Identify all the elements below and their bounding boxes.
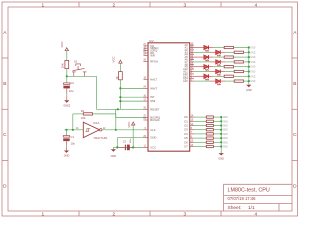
- Z80 CPU IC2 body: [148, 43, 190, 151]
- wire D6 to R18: [194, 141, 206, 143]
- pin 7 D4: [190, 133, 194, 135]
- pin 18 HALT: [144, 78, 149, 80]
- frame row ticks right: [292, 57, 298, 59]
- pin 21 RD: [144, 52, 149, 54]
- pin 15 D1: [190, 120, 194, 122]
- junction reset line pullup: [117, 108, 119, 110]
- svg-text:NMI: NMI: [150, 99, 155, 103]
- pin 11 VCC: [144, 146, 149, 148]
- svg-text:VCC: VCC: [150, 145, 156, 149]
- svg-text:B: B: [3, 81, 6, 87]
- svg-text:WR: WR: [150, 53, 155, 57]
- svg-text:3: 3: [183, 2, 186, 8]
- svg-text:3: 3: [183, 212, 186, 218]
- pin 25 BUSRQ: [144, 117, 149, 119]
- svg-text:A: A: [3, 30, 7, 36]
- svg-text:VCC: VCC: [112, 55, 116, 62]
- pin 19 MREQ: [144, 47, 149, 49]
- wire R17 to gnd rail 2: [213, 137, 221, 139]
- wire A11 to LED6: [194, 71, 210, 73]
- pin 17 NMI: [144, 100, 149, 102]
- wire C1 to GND: [66, 141, 68, 145]
- svg-text:GND: GND: [64, 155, 70, 158]
- svg-text:GND: GND: [223, 126, 228, 128]
- wire LED1 to R4: [209, 47, 213, 49]
- svg-text:C2: C2: [70, 81, 74, 85]
- svg-text:CLK: CLK: [150, 128, 156, 132]
- svg-text:1: 1: [41, 2, 44, 8]
- svg-text:GND: GND: [223, 147, 228, 149]
- pin 6 CLK: [144, 129, 149, 131]
- svg-text:4: 4: [254, 212, 257, 218]
- wire R6 to gnd rail: [234, 56, 249, 58]
- junction node reset RC: [66, 75, 68, 77]
- wire gnd rail vertical lower: [220, 117, 222, 153]
- resistor R13: [206, 120, 213, 122]
- wire feedback top right: [93, 113, 116, 115]
- pin 32 A2: [190, 49, 194, 51]
- wire R15 to gnd rail 2: [213, 129, 221, 131]
- wire LED8 to R11: [221, 80, 225, 82]
- LED LED3: [204, 55, 208, 59]
- junction gnd rail2 row 5: [220, 133, 222, 135]
- frame column ticks bottom: [78, 211, 80, 216]
- svg-text:GND: GND: [250, 72, 255, 74]
- junction INT: [119, 96, 121, 98]
- wire R4 to gnd rail: [234, 47, 249, 49]
- wire R19 to gnd rail 2: [213, 146, 221, 148]
- svg-text:D7: D7: [184, 145, 188, 149]
- svg-text:GND: GND: [250, 76, 255, 78]
- svg-text:100n: 100n: [130, 138, 132, 144]
- wire LED2 to R5: [221, 51, 225, 53]
- junction gnd rail row 5: [248, 66, 250, 68]
- pin 22 WR: [144, 54, 149, 56]
- svg-text:BUSAK: BUSAK: [150, 118, 160, 122]
- wire D3 to R15: [194, 129, 206, 131]
- svg-text:2: 2: [112, 212, 115, 218]
- wire feedback top left: [73, 113, 84, 115]
- junction gnd rail2 row 4: [220, 129, 222, 131]
- power VCC supply P3: [132, 122, 135, 125]
- svg-text:GND: GND: [250, 62, 255, 64]
- wire feedback right vertical: [115, 114, 117, 130]
- junction gnd rail2 row 8: [220, 145, 222, 147]
- svg-text:10K: 10K: [60, 63, 64, 68]
- svg-text:10u: 10u: [69, 89, 74, 93]
- svg-text:GND: GND: [250, 48, 255, 50]
- resistor R6: [224, 56, 233, 58]
- svg-text:GND: GND: [223, 117, 228, 119]
- svg-text:A15: A15: [183, 79, 188, 83]
- pin 4 A14: [190, 78, 194, 80]
- junction NMI: [119, 100, 121, 102]
- wire D0 to R12: [194, 116, 206, 118]
- svg-text:S1: S1: [74, 59, 78, 63]
- LED LED2: [216, 50, 220, 54]
- junction gnd rail2 row 6: [220, 137, 222, 139]
- pin 38 A8: [190, 63, 194, 65]
- svg-text:D2: D2: [184, 124, 188, 128]
- power VCC supply P1: [65, 48, 68, 51]
- LED LED5: [204, 65, 208, 69]
- svg-text:Sheet:: Sheet:: [228, 205, 242, 211]
- junction WAIT: [119, 87, 121, 89]
- pin 24 WAIT: [144, 87, 149, 89]
- pin 16 INT: [144, 96, 149, 98]
- junction feedback output: [115, 129, 117, 131]
- LED LED6: [216, 70, 220, 74]
- wire R5 to gnd rail: [244, 51, 249, 53]
- ground GND4: [246, 85, 251, 87]
- pin 8 D3: [190, 129, 194, 131]
- pin 31 A1: [190, 47, 194, 49]
- wire R18 to gnd rail 2: [213, 141, 221, 143]
- svg-text:1: 1: [41, 212, 44, 218]
- pin 35 A5: [190, 56, 194, 58]
- wire R14 to gnd rail 2: [213, 125, 221, 127]
- resistor R4: [224, 46, 233, 48]
- pin 13 D7: [190, 146, 194, 148]
- wire A5 to LED3: [194, 56, 204, 58]
- resistor R5: [234, 51, 243, 53]
- pin 40 A10: [190, 68, 194, 70]
- LED LED8: [216, 79, 220, 83]
- wire D2 to R14: [194, 125, 206, 127]
- svg-text:GND: GND: [250, 57, 255, 59]
- svg-text:D: D: [3, 183, 7, 189]
- power VCC supply P2: [119, 60, 122, 63]
- svg-text:C3: C3: [123, 141, 127, 144]
- junction gnd rail2 row 3: [220, 124, 222, 126]
- svg-text:RESET: RESET: [150, 107, 160, 111]
- resistor R19: [206, 145, 213, 147]
- wire R11 to gnd rail: [244, 80, 249, 82]
- resistor R14: [206, 124, 213, 126]
- wire LED5 to R8: [209, 66, 213, 68]
- svg-text:GND: GND: [150, 136, 156, 140]
- svg-text:D4: D4: [184, 132, 188, 136]
- wire D1 to R13: [194, 120, 206, 122]
- wire GND pin 29: [117, 137, 143, 139]
- wire R2 pullup chain: [119, 80, 121, 110]
- pin 28 RFSH: [144, 61, 149, 63]
- svg-text:GND: GND: [223, 134, 228, 136]
- pin 37 A7: [190, 61, 194, 63]
- inverter IC1A 74HCT14N: [83, 122, 99, 137]
- ground GND2: [64, 100, 69, 102]
- junction gnd rail row 6: [248, 70, 250, 72]
- ground GND3: [111, 149, 116, 151]
- svg-text:IC1A: IC1A: [93, 121, 99, 125]
- pin 12 D2: [190, 125, 194, 127]
- wire C2 to GND2: [66, 88, 68, 93]
- wire R12 to gnd rail 2: [213, 116, 221, 118]
- svg-text:GND2: GND2: [63, 104, 71, 107]
- wire A9 to LED5: [194, 66, 204, 68]
- pin 5 A15: [190, 80, 194, 82]
- svg-text:R1: R1: [81, 109, 85, 113]
- junction gnd rail2 row 1: [220, 116, 222, 118]
- wire R9 to gnd rail: [244, 71, 249, 73]
- frame column ticks top: [78, 2, 80, 7]
- pin 2 A12: [190, 73, 194, 75]
- pin 3 A13: [190, 75, 194, 77]
- junction gnd rail row 1: [248, 46, 250, 48]
- drawing frame inner border: [8, 7, 292, 211]
- junction feedback input: [72, 129, 74, 131]
- wire A7 to LED4: [194, 61, 210, 63]
- svg-text:12: 12: [103, 127, 106, 130]
- svg-text:VCC: VCC: [127, 121, 131, 128]
- resistor R16: [206, 133, 213, 135]
- wire A15 to LED8: [194, 80, 210, 82]
- svg-text:D5: D5: [184, 136, 188, 140]
- wire to pin 24 WAIT: [120, 87, 143, 89]
- LED LED4: [216, 60, 220, 64]
- wire VCC3 stem: [132, 125, 134, 147]
- resistor R8: [224, 66, 233, 68]
- wire A1 to LED1: [194, 47, 204, 49]
- svg-text:RFSH: RFSH: [150, 60, 158, 64]
- junction gnd rail row 2: [248, 51, 250, 53]
- svg-text:4: 4: [254, 2, 257, 8]
- svg-text:GND: GND: [246, 89, 252, 92]
- wire R10 to gnd rail: [234, 75, 249, 77]
- junction gnd rail row 8: [248, 80, 250, 82]
- wire node down to C2: [66, 76, 68, 83]
- svg-text:10u: 10u: [71, 142, 76, 146]
- wire LED7 to R10: [209, 75, 213, 77]
- pin 20 IORQ: [144, 50, 149, 52]
- junction gnd rail2 row 7: [220, 141, 222, 143]
- svg-text:10K: 10K: [81, 116, 86, 120]
- wire D7 to R19: [194, 146, 206, 148]
- svg-text:A: A: [293, 30, 297, 36]
- wire R16 to gnd rail 2: [213, 133, 221, 135]
- wire R1 to node RESET: [66, 69, 68, 77]
- wire clock output to pin 6: [102, 129, 143, 131]
- wire to pin 17 NMI: [120, 100, 143, 102]
- junction gnd rail2 row 2: [220, 120, 222, 122]
- ground GND5: [219, 153, 224, 155]
- pin 27 M1: [144, 45, 149, 47]
- pin 39 A9: [190, 66, 194, 68]
- pin 29 GND: [144, 137, 149, 139]
- frame row ticks left: [2, 57, 8, 59]
- pin 10 D6: [190, 141, 194, 143]
- junction gnd rail row 4: [248, 61, 250, 63]
- resistor R10: [224, 75, 233, 77]
- junction C3 right VCC stem: [132, 146, 134, 148]
- svg-text:GND: GND: [250, 52, 255, 54]
- svg-text:13: 13: [76, 127, 79, 130]
- wire to pin 16 INT: [120, 96, 143, 98]
- pin 9 D5: [190, 137, 194, 139]
- svg-text:D0: D0: [184, 115, 188, 119]
- junction C1 input: [65, 129, 67, 131]
- wire D4 to R16: [194, 133, 206, 135]
- resistor R17: [206, 137, 213, 139]
- svg-text:C: C: [3, 132, 7, 138]
- wire VCC to R2: [119, 63, 121, 71]
- svg-text:D: D: [293, 183, 297, 189]
- svg-text:D6: D6: [184, 140, 188, 144]
- svg-text:WAIT: WAIT: [150, 86, 157, 90]
- wire input node horizontal: [65, 129, 84, 131]
- ground GND1: [64, 151, 69, 153]
- wire R7 to gnd rail: [244, 61, 249, 63]
- svg-text:GND: GND: [223, 142, 228, 144]
- pin 23 BUSAK: [144, 119, 149, 121]
- wire node to S1 and right: [67, 75, 97, 77]
- svg-text:07/07/19 17:46: 07/07/19 17:46: [228, 196, 257, 201]
- resistor R1 10K: [65, 60, 69, 68]
- svg-text:1/1: 1/1: [248, 205, 255, 211]
- svg-text:D3: D3: [184, 128, 188, 132]
- LED LED7: [204, 74, 208, 78]
- wire A3 to LED2: [194, 51, 210, 53]
- svg-text:HALT: HALT: [150, 77, 157, 81]
- wire R8 to gnd rail: [234, 66, 249, 68]
- wire GND drop: [116, 138, 118, 148]
- junction C3 left: [116, 146, 118, 148]
- svg-text:B: B: [293, 81, 296, 87]
- pin 1 A11: [190, 71, 194, 73]
- wire R13 to gnd rail 2: [213, 120, 221, 122]
- svg-text:1K: 1K: [115, 76, 119, 80]
- resistor R18: [206, 141, 213, 143]
- svg-text:74HCT14N: 74HCT14N: [93, 136, 107, 140]
- pin 30 A0: [190, 44, 194, 46]
- junction gnd rail row 7: [248, 75, 250, 77]
- resistor R3 10K feedback: [83, 113, 92, 115]
- wire GND jog left: [113, 146, 117, 148]
- wire D5 to R17: [194, 137, 206, 139]
- svg-text:LM80C-test, CPU: LM80C-test, CPU: [228, 188, 270, 194]
- wire LED6 to R9: [221, 71, 225, 73]
- junction gnd rail row 3: [248, 56, 250, 58]
- svg-text:GND: GND: [223, 138, 228, 140]
- svg-text:2: 2: [112, 2, 115, 8]
- svg-text:GND: GND: [223, 130, 228, 132]
- wire VCC to R1: [66, 51, 68, 61]
- resistor R12: [206, 116, 213, 118]
- resistor R2 1K: [119, 72, 123, 80]
- svg-text:GND: GND: [218, 157, 224, 160]
- title block box: [224, 184, 293, 211]
- svg-text:GND: GND: [250, 81, 255, 83]
- wire A13 to LED7: [194, 75, 204, 77]
- resistor R7: [234, 61, 243, 63]
- svg-text:D1: D1: [184, 119, 188, 123]
- wire feedback left vertical: [72, 114, 74, 130]
- svg-text:GND: GND: [250, 67, 255, 69]
- pin 26 RESET: [144, 108, 149, 110]
- pin 14 D0: [190, 116, 194, 118]
- wire LED4 to R7: [221, 61, 225, 63]
- LED LED1: [204, 46, 208, 50]
- resistor R9: [234, 70, 243, 72]
- wire reset net to pin 26: [96, 108, 143, 110]
- wire VCC pin 11: [117, 146, 143, 148]
- wire reset net down: [95, 76, 97, 109]
- svg-text:C: C: [293, 132, 297, 138]
- svg-text:C1: C1: [71, 135, 75, 139]
- wire BUSRQ branch: [116, 109, 144, 117]
- wire gnd rail vertical upper: [248, 48, 250, 85]
- wire LED3 to R6: [209, 56, 213, 58]
- resistor R15: [206, 129, 213, 131]
- capacitor C2 10u: [63, 83, 70, 85]
- pin 33 A3: [190, 51, 194, 53]
- svg-text:GND: GND: [111, 155, 117, 158]
- resistor R11: [234, 80, 243, 82]
- pin 34 A4: [190, 54, 194, 56]
- svg-text:GND: GND: [223, 121, 228, 123]
- svg-text:IC2: IC2: [149, 39, 154, 43]
- capacitor C1 10u: [66, 130, 68, 136]
- svg-text:VCC: VCC: [60, 40, 64, 47]
- capacitor C3 100n: [119, 146, 125, 148]
- pin 36 A6: [190, 59, 194, 61]
